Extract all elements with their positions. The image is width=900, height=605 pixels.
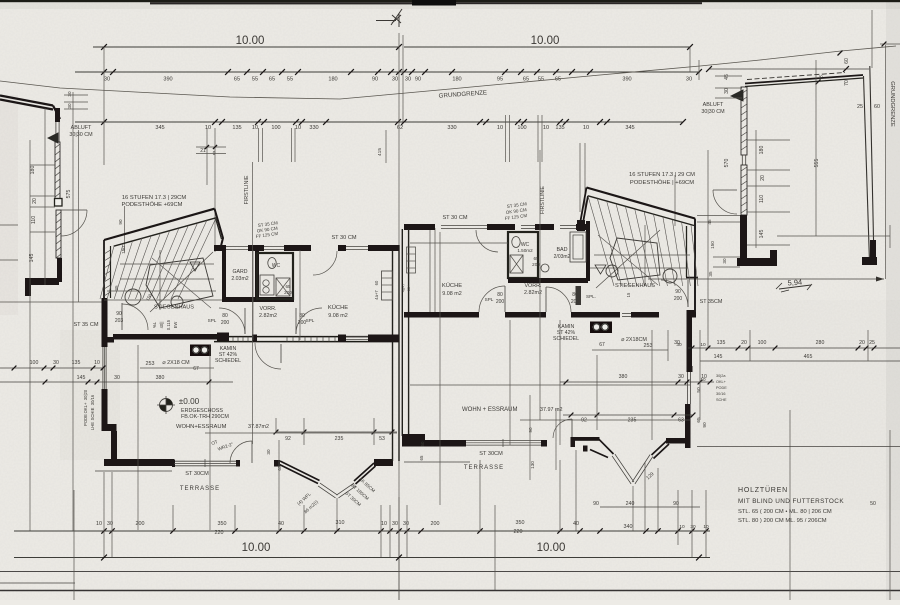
svg-text:SCHIEDEL: SCHIEDEL bbox=[215, 358, 241, 364]
svg-text:WC: WC bbox=[272, 263, 281, 269]
svg-text:VORR.: VORR. bbox=[524, 283, 541, 289]
left living top wall bbox=[104, 337, 114, 343]
svg-text:55: 55 bbox=[538, 77, 544, 83]
right stair circles bbox=[663, 269, 677, 283]
right garage door arc bbox=[713, 190, 737, 214]
svg-text:200: 200 bbox=[532, 262, 540, 267]
bottom frame line 1 bbox=[0, 571, 900, 573]
right unit stair-bad wall bbox=[586, 221, 590, 281]
left unit bottom door opening + arc bbox=[236, 460, 240, 467]
svg-text:100: 100 bbox=[30, 360, 39, 366]
svg-text:20: 20 bbox=[741, 340, 747, 346]
svg-text:PODESTHÖHE +69CM: PODESTHÖHE +69CM bbox=[121, 201, 182, 208]
right unit right wall below stair bbox=[694, 269, 696, 317]
svg-text:30|30 CM: 30|30 CM bbox=[701, 109, 725, 115]
left garage 30-30 ticks bbox=[64, 94, 88, 96]
svg-text:53: 53 bbox=[379, 436, 385, 442]
svg-text:0.115: 0.115 bbox=[166, 319, 171, 330]
right garage bottom inner dim bbox=[777, 235, 890, 237]
svg-text:4a+7: 4a+7 bbox=[374, 290, 379, 300]
svg-text:55: 55 bbox=[287, 77, 293, 83]
svg-text:340: 340 bbox=[624, 524, 633, 530]
svg-text:63: 63 bbox=[678, 418, 684, 424]
terrace edge left bbox=[95, 470, 172, 472]
right garage right wall bbox=[864, 66, 875, 262]
left unit left wall jog bbox=[102, 424, 117, 431]
svg-text:90: 90 bbox=[372, 77, 378, 83]
svg-text:350: 350 bbox=[516, 520, 525, 526]
right chain y348 bbox=[688, 347, 900, 349]
right bottom connector vertical bbox=[494, 505, 496, 590]
right unit bottom wall corner bbox=[402, 434, 425, 447]
right chain E mirror y382 bbox=[560, 381, 714, 383]
right unit bottom window band bbox=[466, 444, 541, 446]
top center black tab bbox=[412, 0, 456, 6]
svg-text:15: 15 bbox=[626, 292, 631, 297]
svg-text:390: 390 bbox=[163, 77, 172, 83]
svg-text:PODE: PODE bbox=[716, 386, 727, 390]
bottom left short line bbox=[0, 582, 75, 584]
svg-text:KÜCHE: KÜCHE bbox=[442, 282, 462, 289]
right unit right wall window bbox=[687, 372, 689, 404]
svg-text:65: 65 bbox=[696, 417, 702, 423]
svg-text:95: 95 bbox=[497, 77, 503, 83]
svg-text:65: 65 bbox=[234, 77, 240, 83]
left unit stair slanted outer wall bbox=[104, 209, 215, 240]
svg-text:16 STUFEN 17.3 | 29 CM: 16 STUFEN 17.3 | 29 CM bbox=[629, 172, 695, 178]
svg-text:10.00: 10.00 bbox=[537, 542, 566, 554]
svg-text:30: 30 bbox=[405, 77, 411, 83]
svg-text:30: 30 bbox=[674, 340, 680, 346]
svg-text:330: 330 bbox=[447, 125, 456, 131]
left side short hlines bbox=[0, 224, 18, 226]
svg-text:ST 35 CM: ST 35 CM bbox=[73, 322, 98, 328]
svg-text:STIEGENHAUS: STIEGENHAUS bbox=[615, 283, 655, 289]
bottom chain line bbox=[14, 557, 710, 559]
right garage left wall upper hatched bbox=[741, 87, 747, 155]
kitchen window strip right unit bbox=[407, 247, 416, 273]
svg-text:MIT BLIND UND FUTTERSTOCK: MIT BLIND UND FUTTERSTOCK bbox=[738, 498, 844, 505]
left side vertical guide x30 bbox=[29, 140, 31, 531]
svg-text:62: 62 bbox=[397, 125, 403, 131]
right garage small ticks top bbox=[715, 75, 742, 77]
svg-text:100: 100 bbox=[271, 125, 280, 131]
north arrow bbox=[376, 9, 402, 27]
svg-text:180: 180 bbox=[759, 146, 765, 155]
svg-text:EW: EW bbox=[173, 322, 178, 329]
svg-text:90: 90 bbox=[116, 311, 122, 317]
svg-text:10: 10 bbox=[96, 521, 102, 527]
svg-text:570: 570 bbox=[724, 159, 730, 168]
svg-text:65: 65 bbox=[269, 77, 275, 83]
svg-text:20: 20 bbox=[859, 340, 865, 346]
left unit left wall bottom segment bbox=[111, 431, 117, 462]
svg-text:55: 55 bbox=[252, 77, 258, 83]
left garage inner dim verticals bbox=[44, 108, 46, 285]
svg-text:90: 90 bbox=[528, 427, 533, 433]
svg-text:GARD: GARD bbox=[233, 269, 248, 275]
svg-text:415: 415 bbox=[377, 148, 383, 156]
svg-text:STIEGENHAUS: STIEGENHAUS bbox=[154, 305, 194, 311]
top right corner line bbox=[880, 43, 900, 45]
svg-text:200: 200 bbox=[221, 320, 230, 326]
firstlinie left bbox=[252, 162, 254, 444]
svg-text:37.97 m2: 37.97 m2 bbox=[540, 407, 562, 413]
svg-text:65: 65 bbox=[533, 256, 539, 261]
bottom right verticals bbox=[789, 410, 791, 600]
svg-text:37.87m2: 37.87m2 bbox=[248, 424, 269, 430]
svg-text:10: 10 bbox=[94, 360, 100, 366]
svg-text:30: 30 bbox=[403, 521, 409, 527]
svg-text:555: 555 bbox=[814, 159, 820, 168]
svg-text:SCHIE: SCHIE bbox=[90, 407, 95, 420]
svg-text:2.82m2: 2.82m2 bbox=[524, 290, 542, 296]
left garage right wall window bbox=[55, 122, 57, 142]
svg-text:45: 45 bbox=[724, 74, 730, 80]
svg-text:10: 10 bbox=[295, 125, 301, 131]
svg-text:280: 280 bbox=[816, 340, 825, 346]
left bottom corner verticals bbox=[73, 490, 75, 600]
svg-text:60: 60 bbox=[844, 58, 850, 64]
594 handwritten bbox=[779, 285, 811, 292]
svg-text:10: 10 bbox=[700, 377, 706, 382]
svg-text:35: 35 bbox=[708, 271, 713, 277]
right unit stair left wall bbox=[581, 188, 589, 222]
right garage bottom wall bbox=[737, 258, 777, 266]
svg-text:150: 150 bbox=[710, 241, 715, 249]
svg-text:200: 200 bbox=[284, 290, 292, 295]
svg-text:145: 145 bbox=[759, 230, 765, 239]
svg-text:80: 80 bbox=[222, 313, 228, 319]
svg-text:ST 30CM: ST 30CM bbox=[185, 471, 209, 477]
svg-text:110: 110 bbox=[759, 195, 765, 203]
ablauft vent triangle left bbox=[48, 133, 58, 143]
svg-text:30: 30 bbox=[678, 374, 684, 380]
scan edge top bbox=[0, 0, 1, 1]
svg-text:TERRASSE: TERRASSE bbox=[180, 486, 220, 492]
svg-text:135: 135 bbox=[717, 340, 726, 346]
left unit middle strip walls - gard/wc bbox=[222, 251, 226, 302]
svg-text:200: 200 bbox=[674, 296, 683, 302]
left garage bottom-left hook bbox=[25, 278, 31, 296]
right unit middle interior wall bbox=[508, 278, 588, 283]
svg-text:9: 9 bbox=[213, 151, 216, 157]
left unit living top wall rails bbox=[214, 336, 399, 338]
top chain A line left (10.00) bbox=[93, 46, 399, 48]
left interior dim chain y432 bbox=[276, 431, 397, 433]
left unit left wall upper hatched bbox=[103, 240, 105, 298]
left unit wc box bbox=[257, 253, 293, 299]
interior guide horizontals right unit bbox=[410, 242, 508, 244]
right interior dim chain y415 bbox=[563, 414, 693, 416]
right garage left wall lower solid bbox=[740, 215, 747, 265]
svg-text:⌀ 2X18 CM: ⌀ 2X18 CM bbox=[162, 360, 190, 366]
right unit living top wall y313 bbox=[404, 312, 479, 318]
top chain A line right (10.00) bbox=[404, 46, 690, 48]
ablauft vent triangle right bbox=[731, 90, 743, 101]
guide pair x291 bbox=[291, 128, 293, 162]
left garage right wall upper bbox=[55, 108, 60, 122]
svg-text:50: 50 bbox=[696, 387, 702, 393]
guide pair x430 bbox=[429, 228, 431, 312]
svg-text:200: 200 bbox=[571, 299, 580, 305]
right garage top dashed line bbox=[747, 73, 845, 80]
svg-text:30: 30 bbox=[67, 103, 72, 109]
svg-text:145: 145 bbox=[714, 354, 723, 360]
left unit left wall lower solid bbox=[102, 298, 108, 347]
left stair landing polygon bbox=[146, 258, 213, 308]
svg-text:90: 90 bbox=[118, 219, 123, 225]
svg-text:180: 180 bbox=[452, 77, 461, 83]
svg-text:253: 253 bbox=[146, 361, 155, 367]
svg-text:30: 30 bbox=[722, 258, 727, 264]
svg-text:ST 30 CM: ST 30 CM bbox=[442, 215, 467, 221]
svg-text:200: 200 bbox=[496, 299, 505, 305]
svg-text:10.00: 10.00 bbox=[242, 542, 271, 554]
svg-text:67: 67 bbox=[193, 366, 199, 372]
svg-text:SPL: SPL bbox=[485, 297, 494, 302]
svg-text:GRUNDGRENZE: GRUNDGRENZE bbox=[889, 81, 895, 127]
svg-text:ST 30CM: ST 30CM bbox=[479, 451, 503, 457]
right unit top door arc bbox=[476, 230, 498, 252]
right chain y361 bbox=[700, 360, 900, 362]
grundgrenze property line bbox=[0, 46, 896, 99]
svg-text:130: 130 bbox=[530, 461, 535, 469]
svg-text:30/16: 30/16 bbox=[90, 394, 95, 405]
svg-text:±0.00: ±0.00 bbox=[179, 397, 200, 406]
svg-text:90: 90 bbox=[593, 501, 599, 507]
left unit corridor door down-swing bbox=[280, 344, 282, 363]
left stair triangle bbox=[190, 262, 200, 271]
guides near right door bbox=[529, 395, 531, 480]
svg-text:1.50m2: 1.50m2 bbox=[517, 248, 533, 253]
left living window mid bbox=[346, 339, 368, 341]
svg-text:110: 110 bbox=[31, 216, 37, 224]
svg-text:345: 345 bbox=[625, 125, 634, 131]
long dim line with arrow y279 bbox=[648, 278, 884, 280]
svg-text:203: 203 bbox=[115, 318, 124, 324]
svg-text:330: 330 bbox=[309, 125, 318, 131]
svg-text:30: 30 bbox=[104, 77, 110, 83]
svg-text:30/16: 30/16 bbox=[716, 392, 726, 396]
right unit bottom door leaf and arc bbox=[571, 419, 573, 438]
left bay right thick diagonal bbox=[354, 463, 376, 484]
right unit wc box bbox=[508, 232, 538, 278]
svg-text:FIRSTLINIE: FIRSTLINIE bbox=[540, 185, 546, 213]
left chain E line y382 bbox=[0, 381, 233, 383]
svg-text:ST 35CM: ST 35CM bbox=[700, 299, 723, 305]
vertical guide x675 bbox=[674, 175, 676, 226]
interior guide verticals right living bbox=[439, 232, 441, 505]
left garage door arc bbox=[61, 210, 87, 236]
svg-text:FIRSTLINIE: FIRSTLINIE bbox=[244, 175, 250, 204]
svg-text:345: 345 bbox=[155, 125, 164, 131]
svg-text:50: 50 bbox=[420, 441, 425, 446]
svg-text:90: 90 bbox=[702, 422, 708, 428]
left unit stair right wall bbox=[215, 209, 224, 246]
svg-text:65: 65 bbox=[419, 455, 424, 460]
svg-text:92: 92 bbox=[285, 436, 291, 442]
svg-text:40||: 40|| bbox=[159, 322, 164, 329]
svg-text:PODE: PODE bbox=[83, 414, 88, 426]
left bay right window diagonal bbox=[338, 486, 356, 498]
right stair triangle bbox=[595, 265, 606, 274]
top chain C line bbox=[75, 121, 683, 123]
svg-text:10: 10 bbox=[205, 125, 211, 131]
right bay right stub wall bbox=[666, 438, 686, 444]
svg-text:ST 30 CM: ST 30 CM bbox=[331, 235, 356, 241]
bad fixtures right unit bbox=[570, 232, 586, 262]
svg-text:380: 380 bbox=[156, 375, 165, 381]
guide pair x580 bbox=[579, 143, 581, 212]
left chain D line y368 bbox=[0, 367, 104, 369]
svg-text:10.00: 10.00 bbox=[531, 35, 560, 47]
right side small chain verticals bbox=[644, 462, 646, 530]
svg-text:STL. 80 ) 200 CM ML. 9: STL. 80 ) 200 CM ML. 95 / 206CM bbox=[738, 518, 827, 524]
svg-text:2.82m2: 2.82m2 bbox=[259, 313, 277, 319]
level symbol left unit bbox=[160, 399, 173, 412]
left unit bottom wall solid bbox=[104, 459, 174, 466]
svg-text:PODESTHÖHE | +69CM: PODESTHÖHE | +69CM bbox=[630, 179, 694, 186]
svg-text:30: 30 bbox=[53, 360, 59, 366]
svg-text:380: 380 bbox=[619, 374, 628, 380]
guide pair x258 bbox=[258, 128, 260, 162]
right garage inner dim verticals bbox=[755, 130, 757, 248]
left unit bottom window band bbox=[174, 465, 236, 467]
svg-text:10.00: 10.00 bbox=[236, 35, 265, 47]
party wall left side - double line bbox=[392, 245, 394, 461]
svg-text:350: 350 bbox=[218, 521, 227, 527]
right unit top wall bbox=[404, 224, 435, 230]
svg-text:30|2a: 30|2a bbox=[716, 374, 726, 378]
right unit stair right wall bbox=[694, 219, 696, 270]
wc fixtures right unit bbox=[512, 237, 520, 248]
svg-text:WOHN + ESSRAUM: WOHN + ESSRAUM bbox=[462, 407, 518, 413]
left unit stair-living door bbox=[121, 303, 123, 330]
terrace edge right bbox=[404, 461, 470, 463]
svg-text:70: 70 bbox=[844, 80, 850, 86]
svg-text:10: 10 bbox=[583, 125, 589, 131]
right stair landing polygon bbox=[610, 238, 660, 280]
svg-text:SPL: SPL bbox=[306, 318, 315, 323]
svg-text:60: 60 bbox=[874, 104, 880, 110]
svg-text:20: 20 bbox=[760, 175, 766, 181]
svg-text:60: 60 bbox=[374, 280, 379, 285]
left stair small circles bbox=[125, 289, 141, 305]
svg-text:HOLZTÜREN: HOLZTÜREN bbox=[738, 486, 788, 494]
svg-text:ABLUFT: ABLUFT bbox=[703, 102, 724, 108]
svg-text:60+: 60+ bbox=[407, 284, 411, 291]
right garage top wall bbox=[745, 75, 863, 84]
svg-text:4a+7: 4a+7 bbox=[402, 284, 406, 293]
svg-text:253: 253 bbox=[644, 343, 653, 349]
svg-text:145: 145 bbox=[77, 375, 86, 381]
svg-text:10: 10 bbox=[700, 342, 706, 348]
left side vertical guide x78 bbox=[78, 130, 80, 302]
svg-text:BAD: BAD bbox=[556, 247, 567, 253]
kamin left unit bbox=[190, 345, 211, 357]
svg-text:OKL+: OKL+ bbox=[716, 380, 727, 384]
kamin right unit bbox=[590, 322, 612, 334]
svg-text:SPL.: SPL. bbox=[586, 294, 596, 299]
right unit right wall lower bbox=[685, 404, 691, 448]
bottom chain verticals bbox=[103, 472, 105, 557]
svg-text:180: 180 bbox=[328, 77, 337, 83]
svg-text:235: 235 bbox=[628, 418, 637, 424]
svg-text:65: 65 bbox=[277, 465, 282, 471]
interior guide horizontals left unit bbox=[104, 299, 222, 301]
svg-text:16 STUFEN 17.3 | 29CM: 16 STUFEN 17.3 | 29CM bbox=[122, 195, 187, 201]
bottom chain line y531 bbox=[14, 530, 710, 532]
left unit top wall (ST 30 CM wall) bbox=[214, 245, 226, 251]
firstlinie right bbox=[539, 150, 541, 420]
svg-text:220: 220 bbox=[514, 529, 523, 535]
right bay right window diagonal bbox=[635, 456, 653, 484]
left garage wall framed post bbox=[55, 199, 63, 207]
top chain B line bbox=[75, 71, 700, 73]
guide pair left firstline region bbox=[206, 128, 208, 185]
svg-text:2/03m2: 2/03m2 bbox=[554, 254, 571, 260]
svg-text:FB.OK-TRH 290CM: FB.OK-TRH 290CM bbox=[181, 414, 229, 420]
svg-text:310: 310 bbox=[336, 520, 345, 526]
svg-text:SCHE: SCHE bbox=[716, 398, 727, 402]
svg-text:575: 575 bbox=[66, 190, 72, 199]
svg-text:2.03m2: 2.03m2 bbox=[231, 276, 248, 282]
left side vertical guide x73 bbox=[72, 92, 74, 531]
left garage bottom wall bbox=[25, 278, 59, 285]
right unit left wall - double line bbox=[401, 229, 403, 436]
svg-text:30: 30 bbox=[67, 91, 72, 97]
svg-text:20: 20 bbox=[32, 198, 38, 204]
svg-text:30: 30 bbox=[392, 521, 398, 527]
right stair side dim lines bbox=[697, 215, 740, 217]
right stair treads bbox=[588, 196, 614, 286]
svg-text:65: 65 bbox=[285, 284, 291, 289]
left unit entry door arc (middle strip) bbox=[219, 308, 245, 334]
left living top wall blocks bbox=[217, 333, 229, 342]
svg-text:465: 465 bbox=[804, 354, 813, 360]
left unit top door arc bbox=[313, 251, 337, 275]
svg-text:100: 100 bbox=[758, 340, 767, 346]
svg-text:30: 30 bbox=[392, 77, 398, 83]
svg-text:67: 67 bbox=[599, 342, 605, 348]
svg-text:80: 80 bbox=[572, 292, 578, 298]
left garage top wall bbox=[0, 96, 60, 120]
right garage dim line y69 bbox=[709, 68, 869, 70]
left bay left thick diagonal bbox=[279, 461, 320, 484]
svg-text:30: 30 bbox=[266, 449, 271, 455]
svg-text:%L: %L bbox=[152, 321, 157, 328]
right garage wall window gap bbox=[741, 155, 743, 165]
bay vertex verticals bbox=[336, 498, 338, 531]
svg-text:10: 10 bbox=[252, 125, 258, 131]
right bay left stub wall bbox=[575, 437, 600, 441]
svg-text:135: 135 bbox=[555, 125, 564, 131]
right garage bottom right hook bbox=[862, 257, 877, 265]
bad spl box right unit bbox=[576, 286, 582, 305]
svg-text:30: 30 bbox=[686, 77, 692, 83]
svg-text:SCHIEDEL: SCHIEDEL bbox=[553, 336, 579, 342]
svg-text:180: 180 bbox=[30, 166, 36, 175]
svg-text:235: 235 bbox=[335, 436, 344, 442]
vertical guide x708 bbox=[707, 150, 709, 348]
svg-text:135: 135 bbox=[232, 125, 241, 131]
left unit left wall window band bbox=[102, 347, 104, 389]
svg-text:135: 135 bbox=[72, 360, 81, 366]
guide pair x505 bbox=[505, 115, 507, 162]
svg-text:92: 92 bbox=[581, 418, 587, 424]
svg-text:TERRASSE: TERRASSE bbox=[464, 465, 504, 471]
